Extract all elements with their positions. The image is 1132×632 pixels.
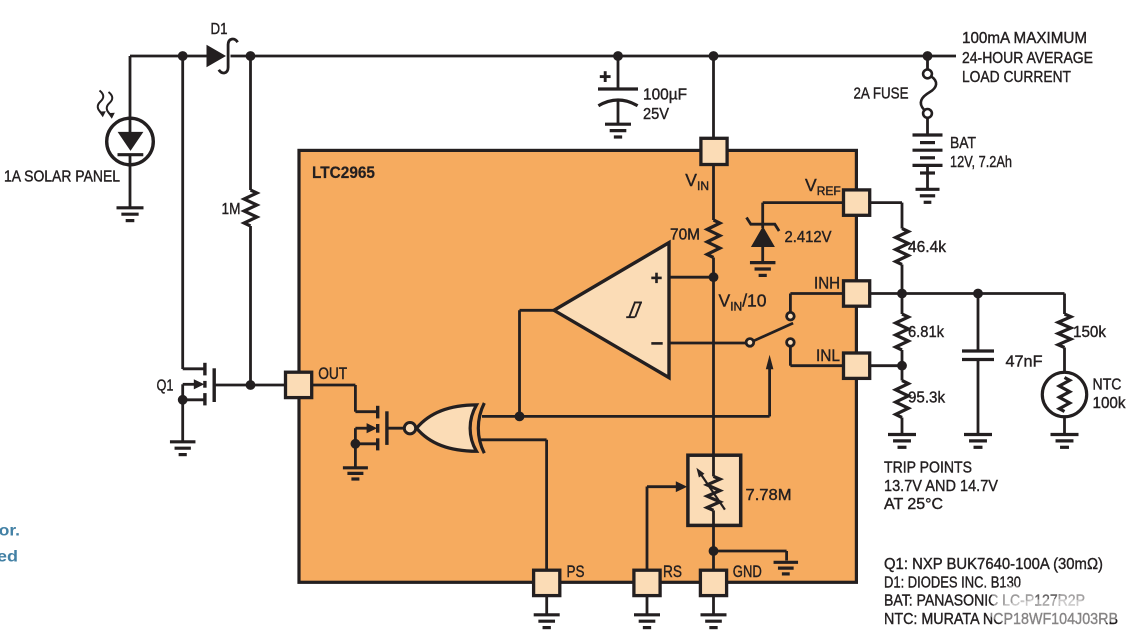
svg-text:BAT: BAT — [950, 135, 976, 152]
svg-text:24-HOUR AVERAGE: 24-HOUR AVERAGE — [962, 50, 1093, 67]
svg-text:12V, 7.2Ah: 12V, 7.2Ah — [950, 154, 1012, 171]
svg-text:13.7V AND 14.7V: 13.7V AND 14.7V — [884, 478, 998, 495]
svg-text:INL: INL — [816, 346, 840, 365]
svg-text:2A FUSE: 2A FUSE — [854, 86, 909, 103]
svg-text:PS: PS — [567, 562, 585, 581]
svg-text:150k: 150k — [1073, 324, 1107, 341]
svg-text:LTC2965: LTC2965 — [312, 164, 375, 182]
svg-text:47nF: 47nF — [1006, 354, 1043, 371]
svg-text:OUT: OUT — [318, 364, 347, 383]
svg-text:D1: D1 — [211, 21, 228, 38]
svg-text:1M: 1M — [222, 201, 241, 218]
svg-text:25V: 25V — [643, 106, 669, 123]
svg-text:6.81k: 6.81k — [908, 324, 945, 341]
svg-text:1A SOLAR PANEL: 1A SOLAR PANEL — [4, 168, 120, 185]
svg-text:tor.: tor. — [0, 522, 20, 539]
svg-text:100k: 100k — [1093, 395, 1127, 412]
svg-text:100µF: 100µF — [643, 87, 687, 104]
svg-text:Q1: NXP BUK7640-100A (30mΩ): Q1: NXP BUK7640-100A (30mΩ) — [884, 556, 1103, 573]
svg-text:Q1: Q1 — [157, 378, 174, 395]
svg-text:TRIP POINTS: TRIP POINTS — [884, 460, 972, 477]
svg-text:7.78M: 7.78M — [746, 487, 792, 504]
svg-text:100mA MAXIMUM: 100mA MAXIMUM — [962, 30, 1087, 47]
svg-text:70M: 70M — [670, 226, 700, 243]
svg-text:NTC: NTC — [1093, 376, 1122, 393]
svg-text:LOAD CURRENT: LOAD CURRENT — [962, 69, 1071, 86]
svg-text:2.412V: 2.412V — [785, 229, 832, 246]
svg-text:95.3k: 95.3k — [908, 390, 946, 407]
svg-text:ed: ed — [0, 549, 18, 566]
svg-text:AT 25°C: AT 25°C — [884, 496, 943, 513]
svg-text:VIN/10: VIN/10 — [719, 291, 767, 314]
svg-text:GND: GND — [733, 562, 762, 581]
svg-text:46.4k: 46.4k — [908, 239, 947, 256]
svg-text:INH: INH — [814, 274, 840, 293]
svg-text:RS: RS — [663, 562, 682, 581]
